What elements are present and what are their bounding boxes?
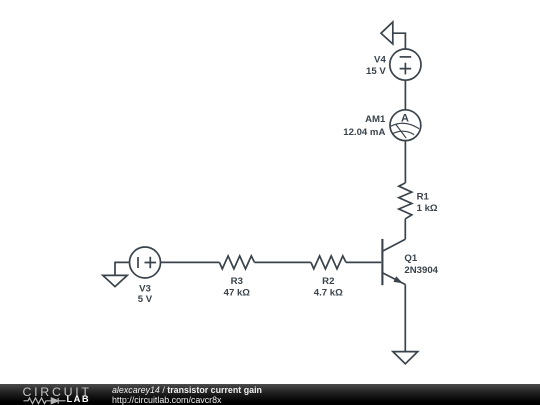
wire: ground GND1 to V4 top: [393, 33, 406, 49]
ammeter AM1 (12.04 mA): [343, 110, 421, 141]
CircuitLab logo mini-schematic (resistor + diode): [0, 384, 68, 405]
CircuitLab logo wordmark: [23, 386, 92, 398]
svg-text:A: A: [401, 112, 409, 124]
svg-text:4.7 kΩ: 4.7 kΩ: [314, 288, 343, 299]
svg-text:V3: V3: [139, 283, 151, 294]
svg-text:15 V: 15 V: [366, 66, 386, 77]
resistor R3 (47 kΩ): [219, 256, 254, 299]
wire: AM1 bottom to R1 top: [404, 141, 406, 183]
wire: V4 bottom to AM1 top: [404, 80, 406, 110]
svg-text:AM1: AM1: [365, 114, 386, 125]
footer bar: [0, 384, 540, 405]
ground GND2 (bottom, emitter): [393, 352, 418, 364]
resistor R2 (4.7 kΩ): [311, 256, 346, 299]
svg-text:R2: R2: [322, 276, 334, 287]
svg-text:Q1: Q1: [404, 253, 417, 264]
transistor Q1 (2N3904, NPN): [382, 239, 438, 285]
svg-text:2N3904: 2N3904: [404, 265, 438, 276]
ground GND1 (top, V4 negative terminal): [381, 22, 393, 44]
wire: V3 right to R3: [161, 261, 220, 263]
svg-text:47 kΩ: 47 kΩ: [224, 288, 251, 299]
CircuitLab logo LAB: [67, 395, 91, 404]
ground GND3 (left, V3 negative terminal): [103, 275, 127, 286]
wire: R1 bottom to Q1 collector: [404, 219, 406, 240]
wire: R2 to Q1 base: [346, 261, 381, 263]
svg-text:5 V: 5 V: [138, 294, 153, 305]
svg-text:1 kΩ: 1 kΩ: [417, 203, 438, 214]
svg-text:R1: R1: [417, 192, 430, 203]
svg-text:R3: R3: [231, 276, 243, 287]
footer title and url: [112, 386, 262, 405]
svg-text:V4: V4: [374, 54, 386, 65]
wire: Q1 emitter to ground: [404, 285, 406, 352]
resistor R1 (1 kΩ): [399, 183, 438, 219]
wire: R3 to R2: [255, 261, 311, 263]
svg-text:12.04 mA: 12.04 mA: [343, 127, 385, 138]
wire: V3 left to ground GND3: [115, 262, 130, 275]
voltage source V3 (5 V): [130, 247, 161, 305]
voltage source V4 (15 V): [366, 49, 421, 80]
